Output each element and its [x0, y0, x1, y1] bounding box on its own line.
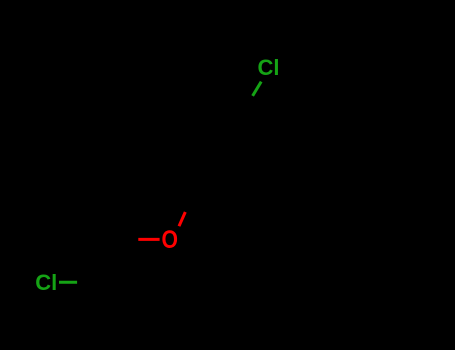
- svg-text:Cl: Cl: [258, 55, 280, 80]
- svg-text:Cl: Cl: [35, 270, 57, 295]
- svg-text:O: O: [162, 226, 179, 254]
